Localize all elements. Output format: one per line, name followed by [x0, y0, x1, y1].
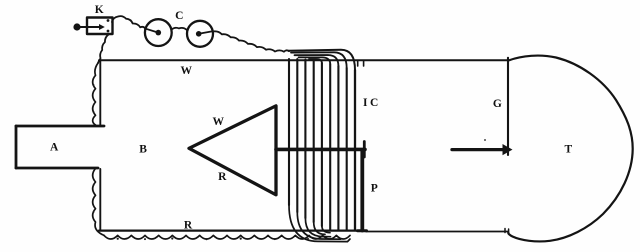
bell junction ticks	[505, 229, 509, 233]
svg-text:G: G	[493, 98, 502, 110]
svg-text:P: P	[371, 182, 378, 194]
cathode triangle	[189, 106, 276, 195]
coil turn 5	[321, 63, 323, 226]
box B inner left edge	[99, 60, 101, 230]
IC boundary ticks	[358, 61, 364, 67]
coil turn 9	[354, 70, 356, 231]
svg-text:IC: IC	[363, 97, 381, 109]
arm A	[16, 126, 104, 168]
lamp C1	[145, 19, 172, 46]
scan specks along coating	[93, 84, 309, 240]
wire K down to box corner	[98, 35, 109, 64]
coil turn 8	[346, 68, 348, 231]
coil turn 4	[313, 60, 315, 223]
svg-text:B: B	[139, 144, 147, 156]
wire C1 to C2	[172, 28, 187, 30]
grid line G	[507, 58, 509, 155]
coil turn 3	[304, 60, 306, 219]
rod end crossbar	[363, 142, 366, 158]
coil turn 7	[337, 66, 339, 231]
svg-text:W: W	[212, 116, 224, 128]
svg-text:K: K	[95, 4, 104, 16]
coil turn 1	[288, 59, 290, 205]
wire K to C1	[112, 16, 146, 29]
bell T outline	[508, 56, 632, 242]
key K contacts	[107, 19, 110, 22]
wire coating left side (wavy)	[93, 63, 104, 235]
lamp C2	[187, 21, 213, 47]
rod from cathode	[276, 148, 365, 152]
svg-text:R: R	[218, 171, 227, 183]
wire C2 to coil	[213, 31, 289, 51]
coil turn 6	[329, 64, 331, 231]
gun arrow	[452, 148, 503, 151]
svg-text:R: R	[184, 220, 193, 232]
svg-text:A: A	[50, 142, 59, 154]
svg-text:W: W	[180, 65, 192, 77]
tube bottom line to bell	[366, 231, 508, 233]
key K knob	[73, 23, 80, 30]
box B bottom edge	[99, 229, 366, 231]
box B top edge	[99, 59, 507, 61]
plate P	[360, 150, 364, 231]
svg-text:T: T	[564, 144, 572, 156]
key K body	[87, 18, 113, 35]
speck	[484, 139, 486, 141]
coil turn 2	[296, 59, 298, 212]
wire coating bottom side (wavy)	[104, 235, 350, 239]
key K lever	[80, 26, 100, 28]
svg-text:C: C	[175, 10, 183, 22]
